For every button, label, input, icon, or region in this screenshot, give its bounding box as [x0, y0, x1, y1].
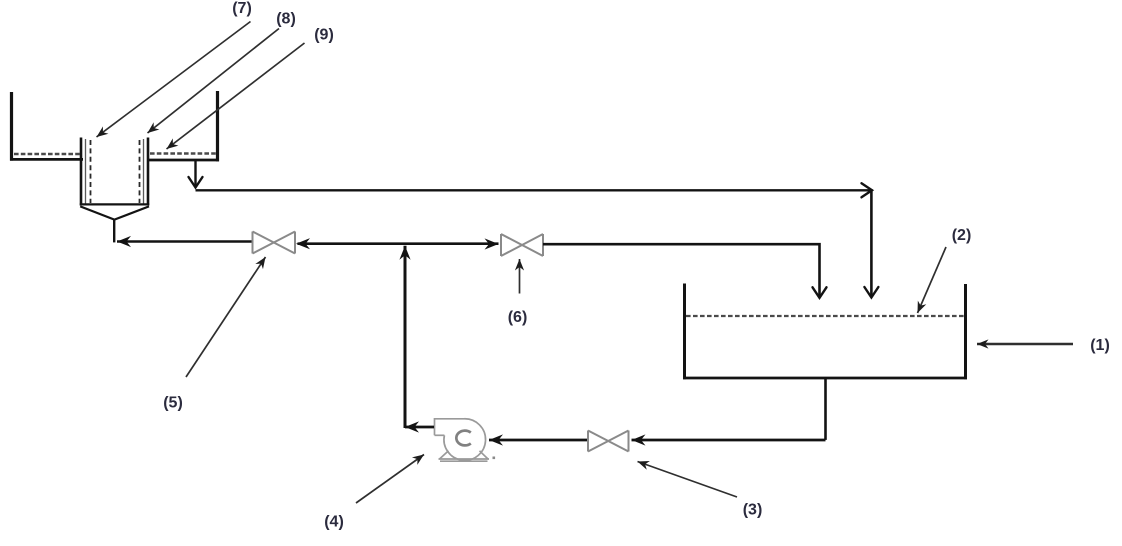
pipe valve5 to valve6 through junction [298, 242, 499, 245]
leader arrow for (8) [148, 29, 280, 134]
svg-text:(3): (3) [743, 502, 763, 519]
feed tank left bottom [10, 158, 83, 161]
overflow vessel bottom shelf [80, 203, 149, 205]
overflow vessel outer right wall [147, 138, 150, 206]
valve V3 [588, 431, 629, 452]
valve V6 [501, 234, 543, 256]
overflow vessel outer left wall [80, 138, 83, 206]
overflow vessel right dashed tube wall [139, 140, 141, 203]
arrow into valve5 right side [296, 238, 310, 249]
svg-text:(8): (8) [276, 11, 296, 28]
leader arrow for (7) [97, 22, 251, 138]
feed tank left wall [10, 92, 13, 161]
top pipe corner drop into tank [870, 189, 873, 297]
feed tank right bottom [148, 159, 219, 162]
leader arrow for (4) [356, 455, 424, 504]
pipe tank outlet to valve3 with arrow [632, 439, 826, 442]
overflow vessel funnel right side [114, 206, 149, 219]
tank T1 right wall [964, 284, 967, 379]
tank outlet pipe [824, 379, 827, 440]
svg-text:(1): (1) [1090, 337, 1110, 354]
svg-text:(5): (5) [163, 395, 183, 412]
svg-text:(6): (6) [508, 309, 528, 326]
feed tank left water level (dashed) [14, 153, 80, 155]
overflow vessel funnel left side [80, 206, 114, 219]
svg-text:(7): (7) [232, 0, 252, 17]
overflow vessel inner left wall (thin) [85, 139, 87, 204]
pipe valve3 to pump suction with arrow [489, 439, 587, 442]
leader arrow for (6) [519, 259, 521, 294]
valve V5 [253, 232, 296, 254]
tank T1 left wall [683, 284, 686, 380]
top long recirculation pipe [196, 189, 873, 191]
leader arrow for (2) [918, 247, 947, 313]
overflow vessel inner right wall (thin) [143, 139, 145, 204]
feed tank right water level (dashed) [150, 152, 216, 154]
svg-text:(9): (9) [314, 27, 334, 44]
leader arrow for (5) [186, 257, 266, 377]
pump base dot [493, 457, 496, 460]
pump discharge pipe with arrow [405, 426, 434, 429]
svg-text:(2): (2) [952, 227, 972, 244]
pump discharge riser with up arrow [404, 246, 407, 428]
leader arrow for (3) [638, 462, 738, 498]
arrow into valve6 left side [485, 238, 499, 249]
feed tank right wall [216, 91, 219, 161]
pump impeller letter C [456, 431, 470, 446]
leader arrow for (1) [977, 343, 1073, 346]
weir outlet down pipe with arrow [194, 161, 196, 188]
pipe valve5 to funnel stem with arrow [117, 240, 252, 243]
leader arrow for (9) [167, 43, 305, 149]
overflow vessel drain stem [113, 219, 115, 242]
overflow vessel left dashed tube wall [90, 140, 92, 203]
svg-text:(4): (4) [324, 514, 344, 531]
pump P (centrifugal, grey) [435, 419, 490, 461]
tank T1 water level (dashed) [686, 315, 964, 317]
pipe valve6 to right tank [543, 244, 820, 298]
tank T1 bottom [683, 377, 967, 380]
